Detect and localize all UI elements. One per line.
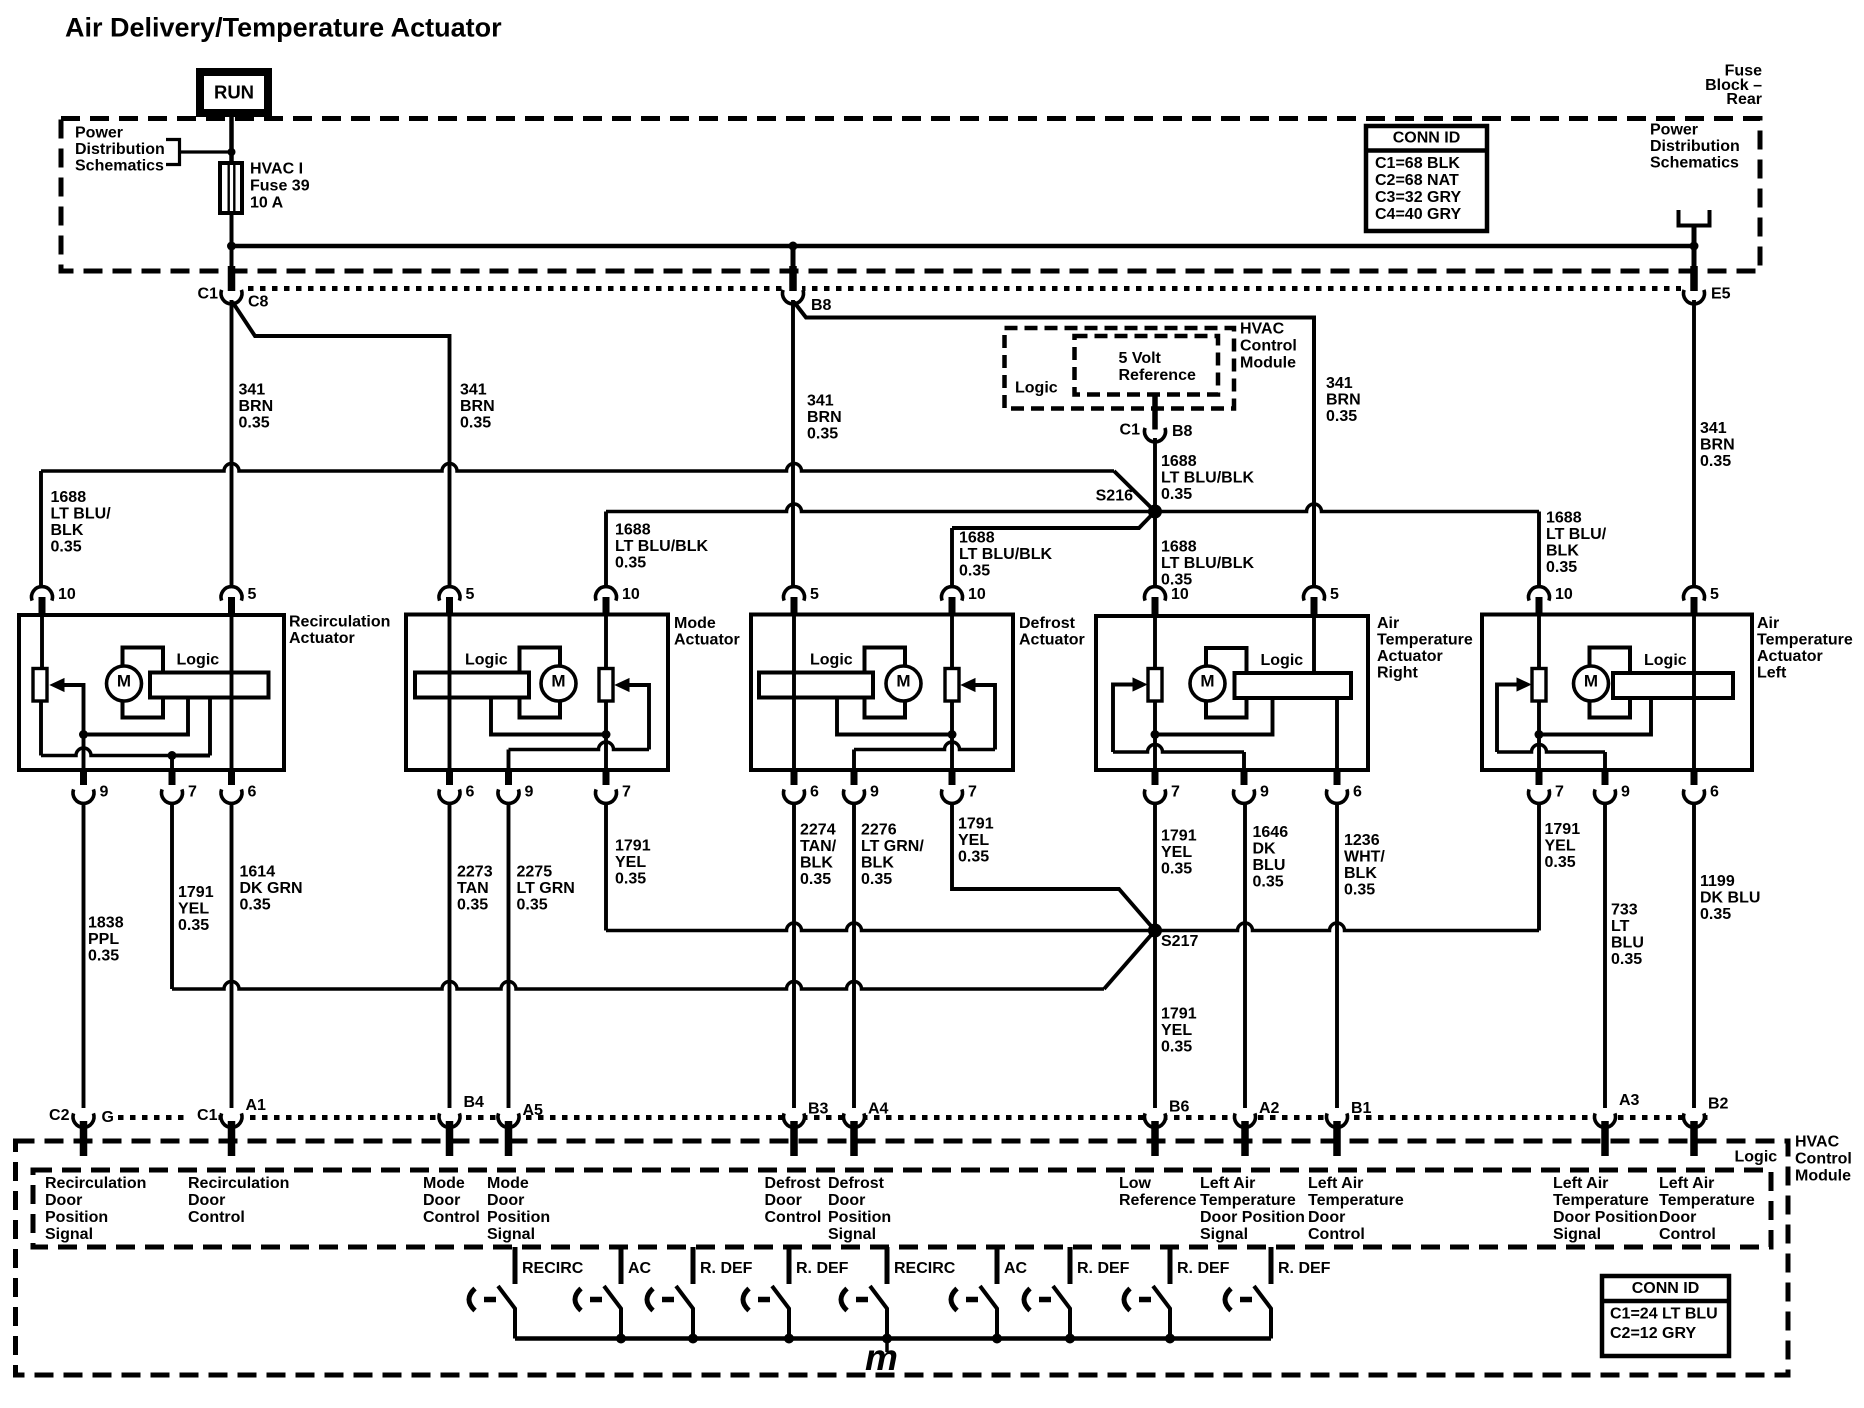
fuse block rear label — [1705, 63, 1762, 108]
switch R. DEF blade 9 — [1254, 1286, 1271, 1339]
svg-text:Mode: Mode — [487, 1175, 529, 1192]
switch AC actuate arrow 2 — [575, 1289, 581, 1311]
svg-text:M: M — [551, 671, 565, 690]
bus junction dot R. DEF 693 — [688, 1334, 698, 1344]
svg-text:7: 7 — [188, 784, 197, 801]
svg-text:Recirculation: Recirculation — [45, 1175, 146, 1192]
atl pin7 wire — [1537, 735, 1541, 771]
svg-text:M: M — [896, 671, 910, 690]
wire 341 BRN E5 to air temp left pin5 — [1692, 300, 1696, 594]
svg-text:0.35: 0.35 — [240, 897, 271, 914]
switch RECIRC blade 5 — [870, 1286, 887, 1339]
module connector A4 — [844, 1109, 865, 1156]
wire label 1688 upper — [1161, 453, 1254, 503]
svg-text:1688: 1688 — [1161, 539, 1197, 556]
svg-text:BLK: BLK — [1344, 865, 1377, 882]
svg-text:10: 10 — [1555, 586, 1573, 603]
svg-text:HVAC I: HVAC I — [250, 161, 303, 178]
hvac control module logic dashed box — [1005, 328, 1235, 409]
svg-text:Logic: Logic — [465, 652, 508, 669]
svg-text:Signal: Signal — [828, 1226, 876, 1243]
svg-text:0.35: 0.35 — [861, 871, 892, 888]
wire label 2274 TAN BLK — [800, 822, 837, 889]
pin 5 connector — [1684, 587, 1705, 615]
wire label 341 BRN defrost — [807, 393, 842, 443]
recirc wiper arrow — [51, 679, 65, 692]
svg-text:Control: Control — [423, 1209, 480, 1226]
reference bracket to power distribution — [166, 140, 229, 165]
branch B8 to air temp right pin5 — [794, 302, 1314, 594]
svg-text:RUN: RUN — [214, 82, 254, 103]
svg-text:0.35: 0.35 — [457, 897, 488, 914]
mode pot feed — [604, 615, 608, 669]
thick stub C8 — [228, 266, 236, 291]
atl motor M — [1574, 666, 1609, 701]
svg-text:DK BLU: DK BLU — [1700, 890, 1760, 907]
power distribution schematics label left — [75, 125, 165, 175]
pin 6 connector — [221, 770, 242, 803]
svg-text:B1: B1 — [1351, 1100, 1372, 1117]
svg-text:0.35: 0.35 — [958, 849, 989, 866]
splice S216 — [1148, 505, 1162, 519]
svg-text:9: 9 — [100, 784, 109, 801]
svg-text:C2=68 NAT: C2=68 NAT — [1375, 172, 1459, 189]
svg-text:0.35: 0.35 — [807, 426, 838, 443]
svg-text:0.35: 0.35 — [178, 917, 209, 934]
svg-text:Fuse 39: Fuse 39 — [250, 178, 310, 195]
bus junction dot RECIRC 887 — [882, 1334, 892, 1344]
svg-text:1688: 1688 — [959, 530, 995, 547]
svg-text:Temperature: Temperature — [1308, 1192, 1404, 1209]
bus junction dot R. DEF 789 — [784, 1334, 794, 1344]
svg-text:M: M — [1200, 671, 1214, 690]
pin 7 connector — [1529, 770, 1550, 803]
connector E5 — [1685, 286, 1703, 300]
svg-text:YEL: YEL — [1545, 838, 1576, 855]
fuse block connector dotted line — [248, 286, 1681, 291]
wire label 1688 below S216 — [1161, 539, 1254, 589]
svg-text:Rear: Rear — [1726, 91, 1762, 108]
svg-text:0.35: 0.35 — [959, 563, 990, 580]
connector B8 top — [784, 286, 802, 300]
svg-text:0.35: 0.35 — [1344, 882, 1375, 899]
svg-text:Actuator: Actuator — [1019, 632, 1085, 649]
svg-text:10: 10 — [968, 586, 986, 603]
svg-text:LT: LT — [1611, 918, 1630, 935]
svg-text:Logic: Logic — [1644, 652, 1687, 669]
svg-text:Logic: Logic — [1015, 380, 1058, 397]
switch AC blade 2 — [604, 1286, 621, 1339]
switch R. DEF blade 4 — [772, 1286, 789, 1339]
pin 6 connector — [1327, 770, 1348, 803]
svg-text:1199: 1199 — [1700, 873, 1735, 890]
svg-text:Recirculation: Recirculation — [188, 1175, 289, 1192]
svg-text:Signal: Signal — [1200, 1226, 1248, 1243]
atr pot low wire — [1155, 698, 1273, 735]
svg-text:Temperature: Temperature — [1659, 1192, 1755, 1209]
switch AC post 2 — [619, 1247, 624, 1284]
svg-text:Temperature: Temperature — [1377, 632, 1473, 649]
svg-text:A3: A3 — [1619, 1092, 1640, 1109]
mode motor bracket — [520, 648, 561, 718]
svg-text:Left Air: Left Air — [1659, 1175, 1714, 1192]
svg-text:Distribution: Distribution — [75, 141, 165, 158]
svg-text:Control: Control — [1308, 1226, 1365, 1243]
svg-text:0.35: 0.35 — [1546, 559, 1577, 576]
atl pin5 wire through logic — [1692, 615, 1696, 771]
switch R. DEF actuate arrow 4 — [743, 1289, 749, 1311]
defrost pin7 wire — [950, 735, 954, 771]
svg-text:R. DEF: R. DEF — [1177, 1260, 1230, 1277]
pin 9 connector — [73, 770, 94, 803]
atl pot junction dot — [1535, 730, 1544, 739]
wire label 1236 WHT BLK — [1344, 832, 1385, 899]
svg-text:Air: Air — [1377, 615, 1399, 632]
fuse label — [250, 161, 310, 212]
svg-text:0.35: 0.35 — [800, 871, 831, 888]
defrost pot low wire — [837, 698, 952, 735]
svg-text:Power: Power — [75, 125, 123, 142]
atr motor bracket — [1206, 648, 1247, 718]
svg-text:0.35: 0.35 — [51, 539, 82, 556]
wire 1791 YEL atr pin7 to B6 — [1153, 804, 1157, 1109]
defrost position sensor — [945, 669, 959, 702]
wire label 1791 YEL low ref — [1161, 1006, 1197, 1056]
svg-text:Signal: Signal — [45, 1226, 93, 1243]
switch AC actuate arrow 6 — [951, 1289, 957, 1311]
wire 1791 YEL defrost pin7 to S217 — [952, 804, 1155, 931]
defrost logic box — [759, 673, 873, 698]
wire label 341 BRN mode — [460, 382, 495, 432]
svg-text:9: 9 — [525, 784, 534, 801]
defrost pot feed — [950, 615, 954, 669]
defrost actuator label — [1019, 615, 1085, 649]
atl pot low wire — [1539, 698, 1651, 735]
svg-text:9: 9 — [870, 784, 879, 801]
label 5 volt reference — [1119, 350, 1196, 384]
svg-text:Mode: Mode — [423, 1175, 465, 1192]
wire 1688 line B right — [1155, 504, 1539, 511]
signal label mode door control — [423, 1175, 480, 1226]
svg-text:Distribution: Distribution — [1650, 138, 1740, 155]
label C1 — [190, 1107, 219, 1122]
thick stub E5 — [1690, 266, 1698, 291]
pin 10 connector — [596, 587, 617, 615]
recirc pin9 wire — [82, 735, 86, 771]
svg-text:LT GRN: LT GRN — [517, 880, 575, 897]
svg-text:2273: 2273 — [457, 864, 493, 881]
svg-text:Air Delivery/Temperature Actua: Air Delivery/Temperature Actuator — [65, 13, 502, 43]
svg-text:1688: 1688 — [51, 489, 87, 506]
pin 9 connector — [1234, 770, 1255, 803]
switch R. DEF post 8 — [1168, 1247, 1173, 1284]
pin 5 connector — [439, 587, 460, 615]
svg-text:BLK: BLK — [800, 855, 833, 872]
svg-text:A5: A5 — [523, 1102, 544, 1119]
svg-text:Temperature: Temperature — [1757, 632, 1853, 649]
svg-text:Module: Module — [1795, 1168, 1851, 1185]
pin 6 connector — [1684, 770, 1705, 803]
atr wiper arrow — [1133, 678, 1147, 691]
svg-text:Control: Control — [1795, 1151, 1852, 1168]
wire RUN to fuse — [229, 113, 234, 163]
wire label 1688 mode — [615, 522, 708, 572]
wire label 1646 DK BLU — [1253, 824, 1289, 891]
label hvac control module top — [1240, 321, 1297, 372]
svg-text:BRN: BRN — [1326, 392, 1361, 409]
svg-text:0.35: 0.35 — [1611, 951, 1642, 968]
svg-text:A4: A4 — [868, 1101, 889, 1118]
power distribution schematics label right — [1650, 122, 1740, 172]
pin 9 connector — [844, 770, 865, 803]
svg-text:B4: B4 — [464, 1094, 485, 1111]
svg-text:1688: 1688 — [1161, 453, 1197, 470]
svg-text:Door: Door — [423, 1192, 460, 1209]
mode actuator box — [406, 615, 668, 771]
svg-text:BLK: BLK — [861, 855, 894, 872]
wire 1838 PPL recirc pin9 to G — [82, 804, 86, 1109]
wire 1688 line C defrost — [952, 512, 1155, 529]
atl pot feed — [1537, 615, 1541, 669]
svg-text:Door: Door — [45, 1192, 82, 1209]
signal label low reference — [1119, 1175, 1196, 1209]
svg-text:Control: Control — [1659, 1226, 1716, 1243]
svg-text:Air: Air — [1757, 615, 1779, 632]
svg-text:Temperature: Temperature — [1200, 1192, 1296, 1209]
svg-text:Left Air: Left Air — [1200, 1175, 1255, 1192]
svg-text:1791: 1791 — [1161, 1006, 1197, 1023]
svg-text:Door: Door — [487, 1192, 524, 1209]
power bus — [232, 244, 1695, 249]
wire label 733 LT BLU — [1611, 902, 1644, 969]
svg-text:341: 341 — [1326, 375, 1353, 392]
svg-text:1688: 1688 — [1546, 510, 1582, 527]
switch R. DEF post 3 — [691, 1247, 696, 1284]
svg-text:341: 341 — [1700, 420, 1727, 437]
svg-text:Control: Control — [1240, 338, 1297, 355]
svg-text:BLK: BLK — [1546, 543, 1579, 560]
signal label recirc door control — [188, 1175, 289, 1226]
svg-text:Actuator: Actuator — [1757, 648, 1823, 665]
recirc wiper junction dot — [79, 730, 88, 739]
atr pot feed — [1153, 616, 1157, 669]
svg-text:10: 10 — [58, 586, 76, 603]
switch R. DEF post 7 — [1068, 1247, 1073, 1284]
svg-text:2276: 2276 — [861, 822, 897, 839]
module connector B4 — [439, 1109, 460, 1156]
mode actuator label — [674, 615, 740, 649]
svg-text:Door: Door — [1308, 1209, 1345, 1226]
svg-text:BLU: BLU — [1253, 857, 1286, 874]
svg-text:7: 7 — [1171, 784, 1180, 801]
svg-text:10 A: 10 A — [250, 194, 284, 211]
svg-text:BLK: BLK — [51, 522, 84, 539]
switch R. DEF blade 3 — [676, 1286, 693, 1339]
switch RECIRC post 5 — [885, 1247, 890, 1284]
svg-text:Schematics: Schematics — [1650, 155, 1739, 172]
svg-text:R. DEF: R. DEF — [700, 1260, 753, 1277]
svg-text:0.35: 0.35 — [1326, 408, 1357, 425]
svg-text:1791: 1791 — [1161, 828, 1197, 845]
defrost wiper wire — [854, 742, 995, 749]
svg-text:LT BLU/BLK: LT BLU/BLK — [959, 546, 1052, 563]
svg-text:Door Position: Door Position — [1200, 1209, 1305, 1226]
mode wiper arrow — [616, 679, 630, 692]
recirc position sensor — [33, 669, 47, 702]
svg-text:10: 10 — [1171, 586, 1189, 603]
signal label mode position signal — [487, 1175, 550, 1243]
wire label 341 BRN air temp right — [1326, 375, 1361, 425]
pin 5 connector — [783, 587, 804, 615]
svg-text:HVAC: HVAC — [1240, 321, 1285, 338]
label C2 — [42, 1107, 71, 1122]
recirc pot low junction dot — [168, 751, 177, 760]
svg-text:Defrost: Defrost — [1019, 615, 1076, 632]
svg-text:R. DEF: R. DEF — [1077, 1260, 1130, 1277]
signal label recirc position signal — [45, 1175, 146, 1243]
module connector A5 — [498, 1109, 519, 1156]
svg-text:TAN: TAN — [457, 880, 489, 897]
pin 9 connector — [1594, 770, 1615, 803]
svg-text:BRN: BRN — [460, 398, 495, 415]
junction dot fuse feed — [228, 148, 236, 156]
svg-text:M: M — [1584, 671, 1598, 690]
svg-text:AC: AC — [628, 1260, 652, 1277]
wire label 2273 TAN — [457, 864, 493, 914]
wire 2274 TAN/BLK defrost pin6 to B3 — [792, 804, 796, 1109]
atl position sensor — [1532, 669, 1546, 702]
wire 1614 DK GRN recirc pin6 to A1 — [230, 804, 234, 1109]
air temp left actuator box — [1482, 615, 1752, 771]
switch AC blade 6 — [980, 1286, 997, 1339]
signal label left air temp door control B2 — [1659, 1175, 1755, 1243]
ignition switch RUN box — [200, 72, 268, 113]
mode pin7 wire — [604, 735, 608, 771]
wire 1688 recirc pin10 line A — [41, 464, 1114, 471]
recirc logic box — [150, 673, 269, 698]
pin 7 connector — [942, 770, 963, 803]
conn id table top — [1366, 126, 1487, 231]
svg-text:7: 7 — [968, 784, 977, 801]
switch RECIRC actuate arrow 1 — [469, 1289, 475, 1311]
wire 341 BRN B8 to defrost pin5 — [791, 300, 795, 594]
wire 1791 YEL recirc pin7 — [170, 804, 174, 990]
switch R. DEF blade 7 — [1053, 1286, 1070, 1339]
module connector A1 — [221, 1109, 242, 1156]
svg-text:1688: 1688 — [615, 522, 651, 539]
svg-text:341: 341 — [239, 382, 266, 399]
svg-text:Control: Control — [188, 1209, 245, 1226]
svg-text:B8: B8 — [811, 297, 832, 314]
bus junction dot R. DEF 1170 — [1165, 1334, 1175, 1344]
module logic inner dashed box — [33, 1170, 1771, 1247]
svg-text:Signal: Signal — [487, 1226, 535, 1243]
wire 5v to S216 — [1153, 438, 1157, 512]
mode pot junction dot — [602, 730, 611, 739]
svg-text:Actuator: Actuator — [674, 632, 740, 649]
svg-text:Position: Position — [828, 1209, 891, 1226]
svg-text:A2: A2 — [1259, 1100, 1280, 1117]
signal label defrost door control — [765, 1175, 822, 1226]
svg-text:BRN: BRN — [1700, 437, 1735, 454]
pin 6 connector — [439, 770, 460, 803]
svg-text:LT BLU/: LT BLU/ — [51, 506, 112, 523]
atl motor bracket — [1590, 648, 1631, 718]
conn id table bottom — [1602, 1276, 1729, 1356]
svg-text:B3: B3 — [808, 1101, 829, 1118]
hvac control module outer dashed box — [16, 1141, 1789, 1375]
defrost pot junction dot — [948, 730, 957, 739]
fuse block out-symbol at E5 — [1679, 210, 1710, 226]
svg-text:AC: AC — [1004, 1260, 1028, 1277]
svg-text:0.35: 0.35 — [1700, 906, 1731, 923]
svg-text:Defrost: Defrost — [765, 1175, 822, 1192]
defrost actuator box — [751, 615, 1013, 771]
bus junction dot AC 621 — [616, 1334, 626, 1344]
svg-text:LT BLU/BLK: LT BLU/BLK — [1161, 555, 1254, 572]
svg-text:G: G — [102, 1109, 114, 1126]
ground stem — [885, 1339, 889, 1353]
defrost motor M — [886, 666, 921, 701]
atr wiper wire — [1113, 745, 1244, 753]
connector C1/C8 — [223, 286, 241, 300]
svg-text:B2: B2 — [1708, 1096, 1729, 1113]
atr position sensor — [1148, 669, 1162, 702]
svg-text:Left Air: Left Air — [1553, 1175, 1608, 1192]
splice S217 — [1148, 924, 1162, 938]
svg-text:Right: Right — [1377, 665, 1419, 682]
junction dot bus E5 — [1690, 242, 1699, 251]
svg-text:C1: C1 — [198, 286, 219, 303]
module connector B2 — [1684, 1109, 1705, 1156]
svg-text:BRN: BRN — [807, 409, 842, 426]
svg-text:DK GRN: DK GRN — [240, 880, 303, 897]
recirc pot low wire — [41, 748, 172, 756]
svg-text:9: 9 — [1260, 784, 1269, 801]
svg-text:7: 7 — [1555, 784, 1564, 801]
module connector B1 — [1327, 1109, 1348, 1156]
air temp right actuator box — [1096, 616, 1368, 770]
svg-text:Temperature: Temperature — [1553, 1192, 1649, 1209]
svg-text:341: 341 — [460, 382, 487, 399]
svg-text:6: 6 — [1353, 784, 1362, 801]
svg-text:0.35: 0.35 — [239, 415, 270, 432]
svg-text:1614: 1614 — [240, 864, 276, 881]
svg-text:Actuator: Actuator — [289, 630, 355, 647]
connector C1/B8 5v — [1146, 424, 1164, 438]
switch common bus — [515, 1336, 1271, 1341]
wire label 1838 PPL — [88, 915, 124, 965]
mode logic box — [415, 673, 529, 698]
wire label 1688 defrost — [959, 530, 1052, 580]
thick stub B8 conn — [789, 266, 797, 291]
title text — [65, 13, 502, 43]
recirc pin5 wire through logic — [230, 615, 234, 770]
svg-text:Low: Low — [1119, 1175, 1152, 1192]
svg-text:A1: A1 — [246, 1097, 267, 1114]
svg-text:CONN ID: CONN ID — [1393, 130, 1461, 147]
svg-text:C1=68 BLK: C1=68 BLK — [1375, 155, 1460, 172]
wire 1791 YEL mode pin7 to S217 — [604, 804, 608, 931]
module connector dotted line — [118, 1115, 1708, 1120]
recirc motor M — [107, 666, 142, 701]
pin 10 connector — [1529, 587, 1550, 615]
recirc pin7 wire — [170, 756, 174, 771]
switch R. DEF blade 8 — [1153, 1286, 1170, 1339]
atl wiper wire — [1497, 745, 1605, 753]
svg-text:Door: Door — [765, 1192, 802, 1209]
svg-text:R. DEF: R. DEF — [796, 1260, 849, 1277]
